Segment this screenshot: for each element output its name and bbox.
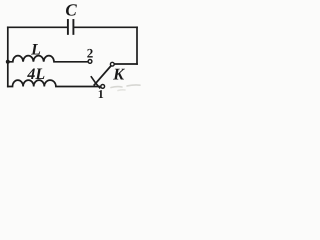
switch K blade [94,66,111,85]
svg-text:2: 2 [87,46,94,61]
wire left vertical [7,27,9,86]
switch K blade hook [91,77,99,88]
wire switch feed [115,63,137,65]
inductor 4L [8,80,101,86]
node junction dot [6,60,10,64]
svg-text:L: L [30,42,41,59]
wire right vertical [136,27,138,64]
wire top-right segment [74,26,137,28]
svg-text:1: 1 [98,87,104,101]
node terminal 2 circle [88,60,92,64]
scan smudge marks [111,85,140,91]
capacitor C plates [68,20,74,34]
node switch pivot circle [110,62,114,66]
svg-text:4L: 4L [26,66,45,83]
wire top-left segment [8,26,68,28]
inductor L [8,56,88,62]
svg-text:C: C [65,0,77,19]
node terminal 1 circle [101,85,105,89]
svg-text:K: K [112,65,125,84]
